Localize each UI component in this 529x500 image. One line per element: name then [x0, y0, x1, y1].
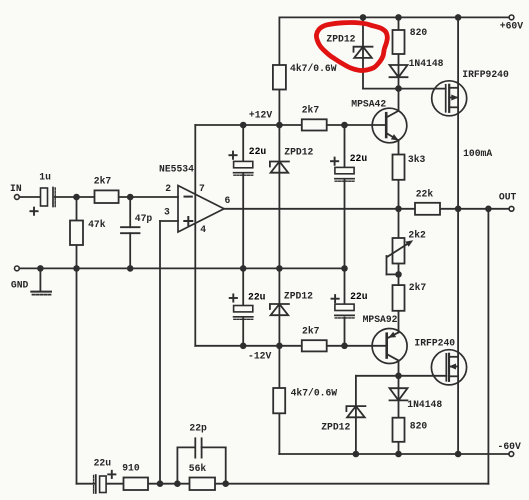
svg-text:22u: 22u — [249, 146, 267, 157]
svg-text:7: 7 — [199, 183, 205, 194]
svg-text:2: 2 — [165, 183, 171, 194]
svg-text:+12V: +12V — [249, 110, 272, 121]
svg-text:ZPD12: ZPD12 — [284, 291, 313, 302]
svg-text:4: 4 — [200, 224, 206, 235]
svg-text:3k3: 3k3 — [408, 154, 426, 165]
svg-text:100mA: 100mA — [463, 148, 492, 159]
svg-text:4k7/0.6W: 4k7/0.6W — [290, 63, 337, 74]
svg-text:22u: 22u — [94, 458, 112, 469]
svg-text:-12V: -12V — [248, 351, 271, 362]
svg-text:820: 820 — [410, 421, 428, 432]
svg-text:2k7: 2k7 — [94, 176, 112, 187]
svg-text:IRFP9240: IRFP9240 — [462, 69, 509, 80]
svg-text:22p: 22p — [189, 422, 207, 433]
svg-text:-60V: -60V — [498, 441, 521, 452]
svg-text:2k7: 2k7 — [409, 282, 427, 293]
svg-text:OUT: OUT — [499, 192, 517, 203]
svg-text:22k: 22k — [416, 188, 434, 199]
svg-text:22u: 22u — [350, 153, 368, 164]
svg-text:MPSA42: MPSA42 — [351, 98, 386, 109]
svg-text:NE5534: NE5534 — [159, 164, 194, 175]
svg-text:2k2: 2k2 — [408, 230, 426, 241]
svg-text:820: 820 — [410, 27, 428, 38]
svg-text:4k7/0.6W: 4k7/0.6W — [291, 387, 338, 398]
svg-text:ZPD12: ZPD12 — [326, 34, 355, 45]
svg-text:47k: 47k — [88, 219, 106, 230]
svg-text:910: 910 — [122, 463, 140, 474]
svg-text:IRFP240: IRFP240 — [414, 338, 455, 349]
svg-text:IN: IN — [10, 183, 22, 194]
svg-text:1N4148: 1N4148 — [407, 399, 442, 410]
svg-text:1u: 1u — [39, 171, 51, 182]
svg-text:MPSA92: MPSA92 — [363, 314, 398, 325]
svg-text:1N4148: 1N4148 — [409, 58, 444, 69]
svg-text:47p: 47p — [135, 213, 153, 224]
svg-text:2k7: 2k7 — [302, 326, 320, 337]
svg-text:ZPD12: ZPD12 — [284, 147, 313, 158]
svg-text:+60V: +60V — [500, 21, 523, 32]
svg-text:3: 3 — [164, 206, 170, 217]
svg-text:22u: 22u — [350, 291, 368, 302]
svg-text:ZPD12: ZPD12 — [321, 421, 350, 432]
svg-text:6: 6 — [225, 195, 231, 206]
svg-text:2k7: 2k7 — [302, 105, 320, 116]
svg-text:GND: GND — [11, 279, 29, 290]
svg-text:22u: 22u — [248, 292, 266, 303]
svg-text:56k: 56k — [189, 463, 207, 474]
